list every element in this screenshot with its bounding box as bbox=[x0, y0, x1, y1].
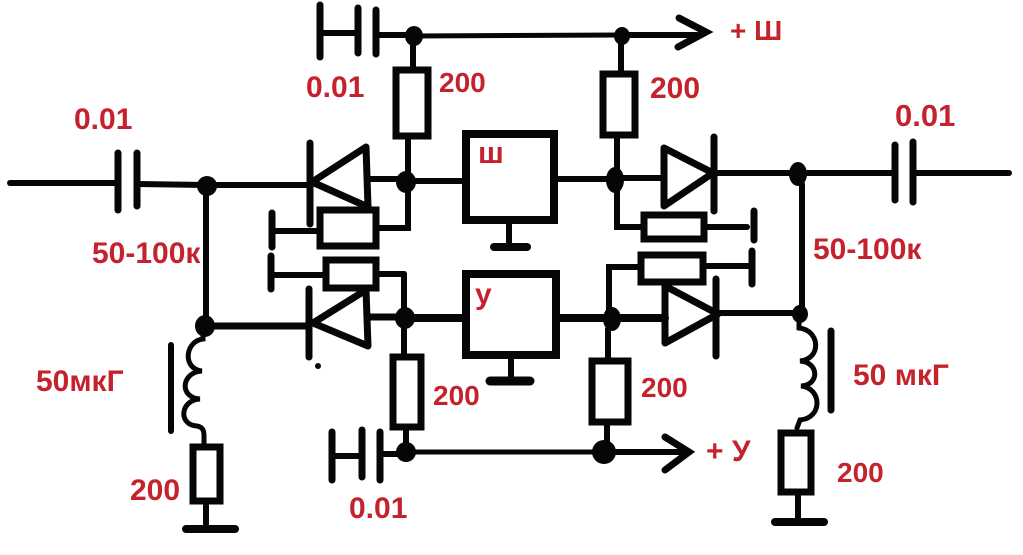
svg-text:0.01: 0.01 bbox=[895, 98, 955, 133]
svg-text:0.01: 0.01 bbox=[74, 103, 132, 136]
svg-text:200: 200 bbox=[650, 72, 700, 105]
svg-text:200: 200 bbox=[130, 474, 180, 507]
svg-text:50мкГ: 50мкГ bbox=[36, 365, 124, 398]
svg-text:50 мкГ: 50 мкГ bbox=[853, 359, 949, 392]
svg-text:200: 200 bbox=[433, 380, 480, 411]
svg-text:ш: ш bbox=[478, 135, 504, 170]
svg-text:50-100к: 50-100к bbox=[813, 233, 922, 266]
svg-text:0.01: 0.01 bbox=[306, 71, 364, 104]
svg-text:+ Ш: + Ш bbox=[730, 15, 782, 46]
svg-text:+ У: + У bbox=[706, 435, 751, 468]
svg-text:200: 200 bbox=[641, 372, 688, 403]
svg-text:200: 200 bbox=[439, 67, 486, 98]
svg-text:у: у bbox=[475, 278, 492, 311]
svg-text:200: 200 bbox=[837, 457, 884, 488]
svg-text:0.01: 0.01 bbox=[349, 492, 407, 525]
svg-text:50-100к: 50-100к bbox=[92, 237, 201, 270]
